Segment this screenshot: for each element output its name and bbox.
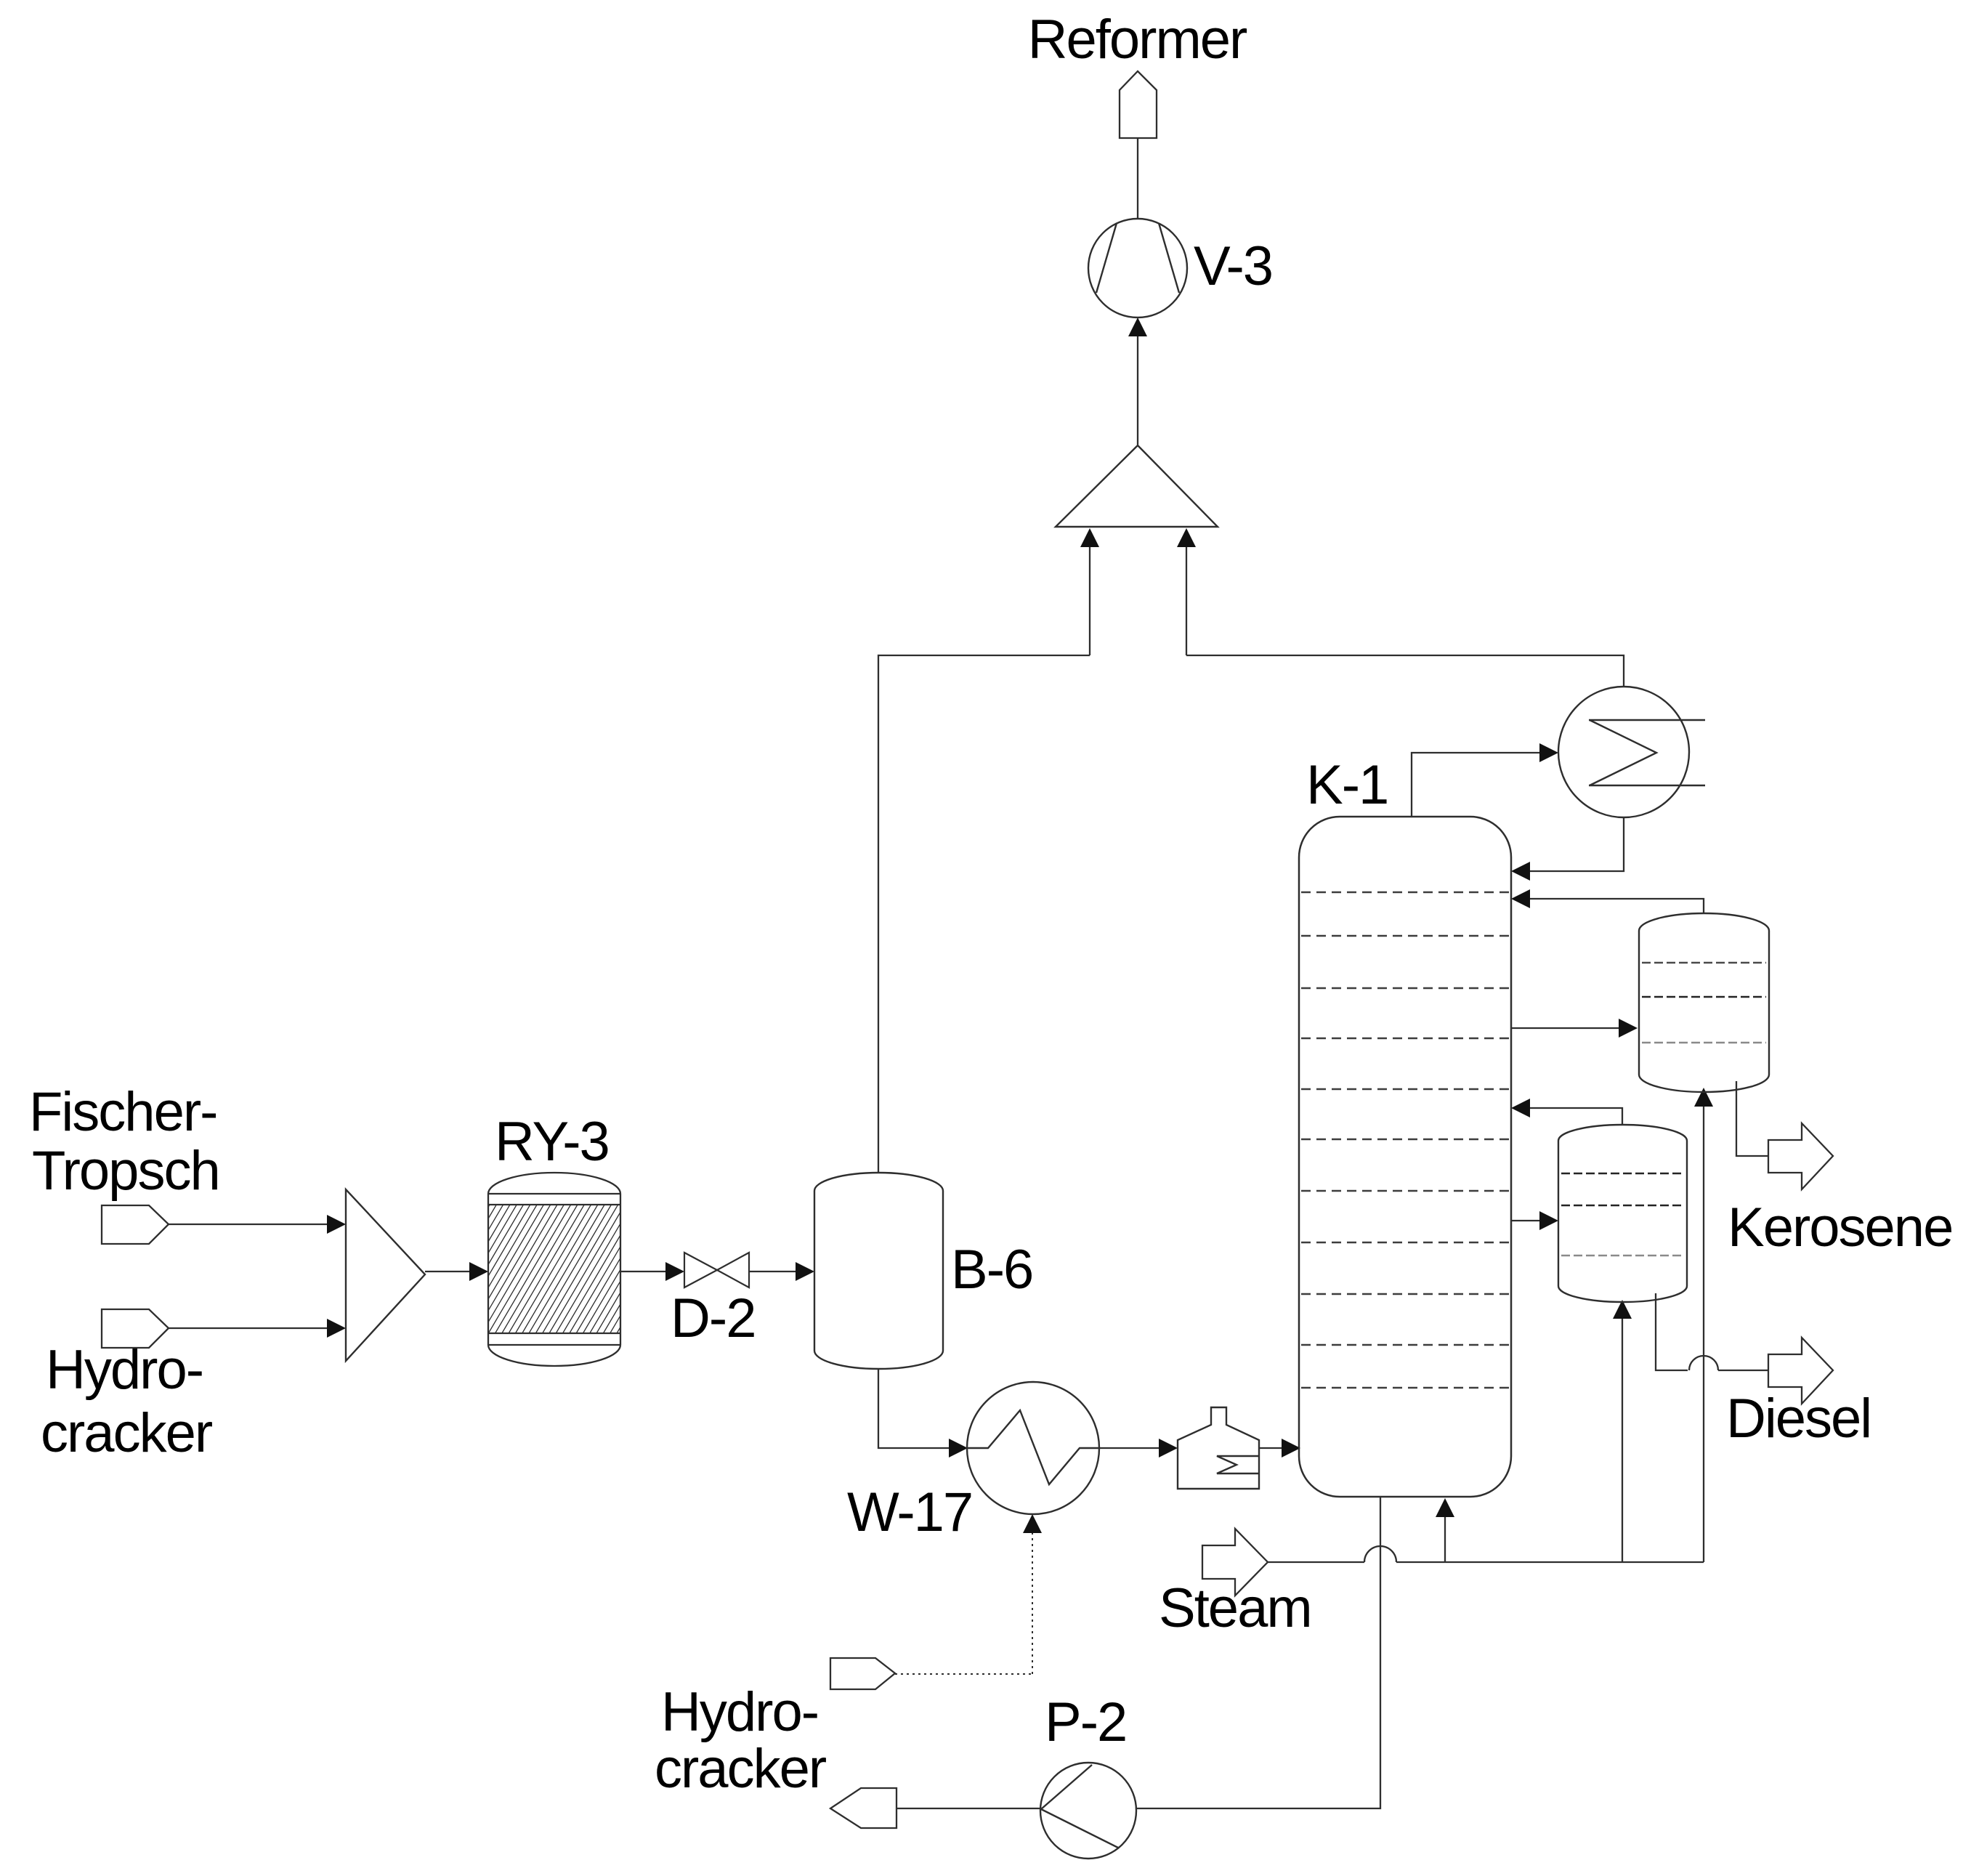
svg-text:Diesel: Diesel <box>1726 1388 1871 1450</box>
svg-text:Tropsch: Tropsch <box>32 1140 219 1202</box>
svg-text:Hydro-: Hydro- <box>46 1339 203 1401</box>
svg-text:D-2: D-2 <box>671 1287 755 1349</box>
svg-text:cracker: cracker <box>41 1402 213 1464</box>
svg-text:Steam: Steam <box>1159 1577 1311 1639</box>
svg-text:W-17: W-17 <box>847 1481 972 1543</box>
svg-text:Hydro-: Hydro- <box>661 1681 818 1743</box>
svg-text:Fischer-: Fischer- <box>29 1081 216 1143</box>
svg-text:Kerosene: Kerosene <box>1728 1197 1952 1258</box>
svg-text:P-2: P-2 <box>1045 1691 1126 1753</box>
svg-text:Reformer: Reformer <box>1028 9 1247 70</box>
svg-text:RY-3: RY-3 <box>495 1111 609 1173</box>
svg-text:B-6: B-6 <box>951 1239 1032 1301</box>
svg-text:K-1: K-1 <box>1306 754 1388 816</box>
svg-text:cracker: cracker <box>655 1738 827 1800</box>
svg-text:V-3: V-3 <box>1194 235 1272 297</box>
